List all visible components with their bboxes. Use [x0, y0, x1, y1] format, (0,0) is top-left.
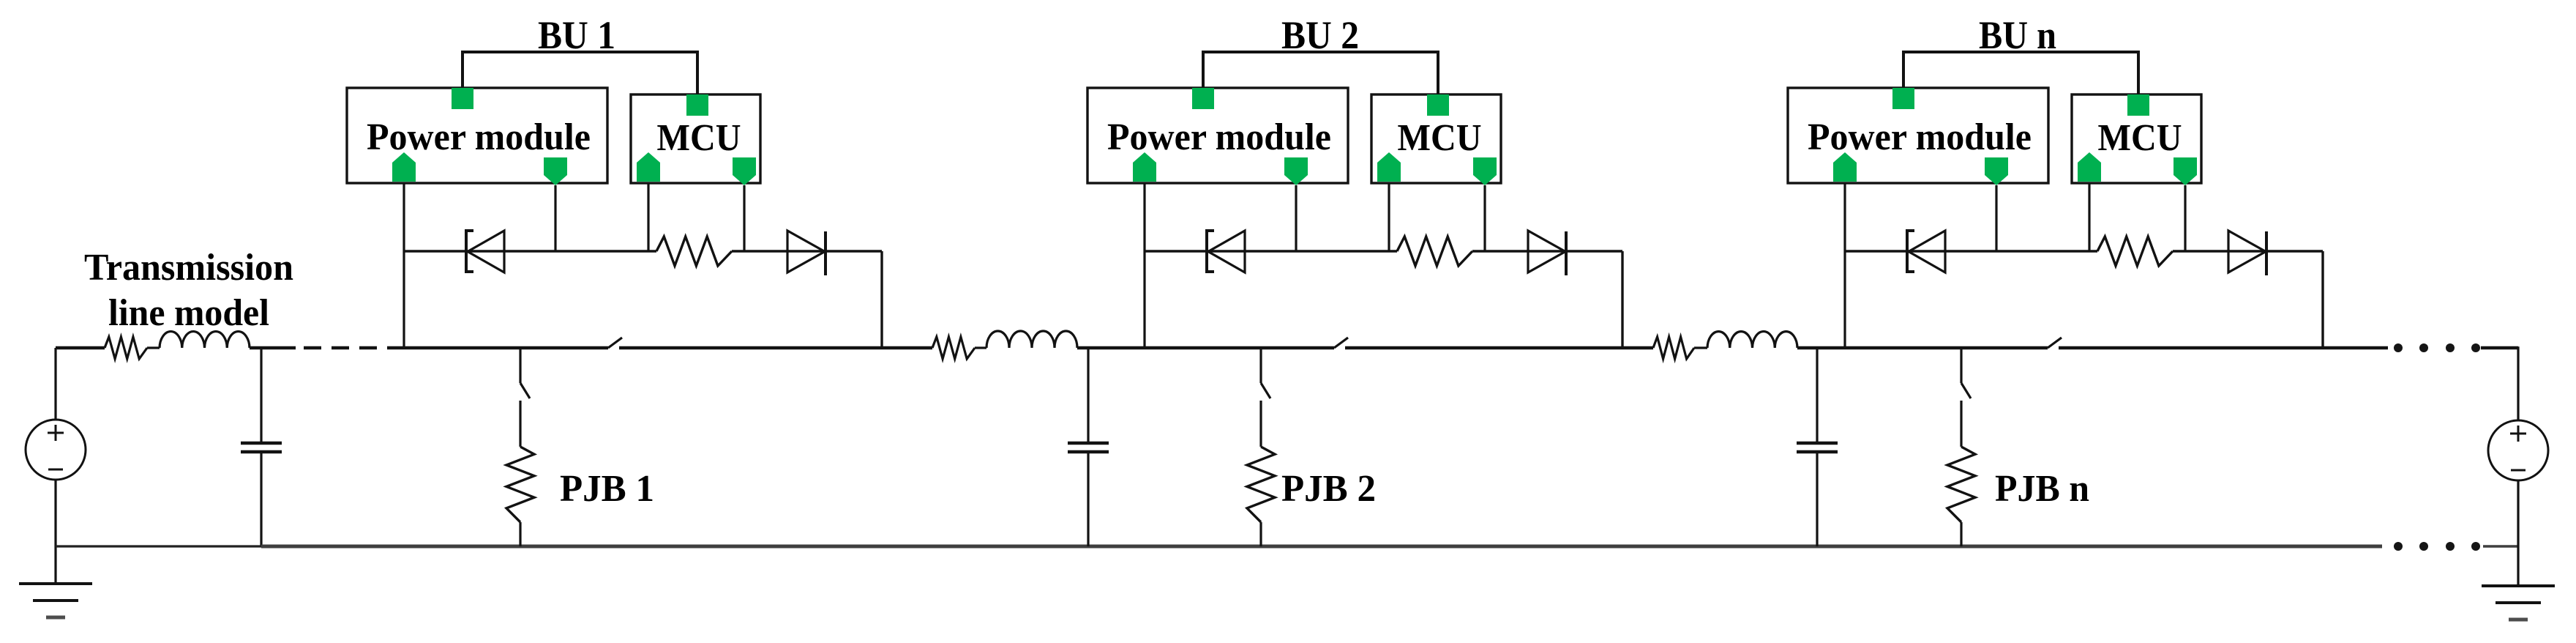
wire Power module left pin down to bus (unit 3)	[1843, 183, 1846, 348]
box MCU (unit 2)	[1371, 94, 1501, 183]
diode D3a cathode bracket	[1907, 231, 1914, 272]
pin green up-arrow bottom-left of MCU (unit 1)	[637, 152, 660, 182]
wire diode row left part (unit 3)	[1845, 250, 2097, 252]
svg-text:BU 1: BU 1	[538, 13, 615, 57]
resistor PJB 3	[1947, 447, 1975, 522]
switch on top bus (unit 3) lever	[2048, 338, 2062, 348]
wire right branch down to bus (unit 2)	[1621, 251, 1623, 348]
diode D3b cathode bar	[2265, 231, 2268, 275]
wire diode row left part (unit 2)	[1145, 250, 1397, 252]
wire diode row right part (unit 2)	[1472, 250, 1622, 252]
wire right branch down to bus (unit 1)	[880, 251, 883, 348]
wire top bus (switch1 to R section2)	[619, 346, 932, 349]
resistor (transmission line R)	[105, 337, 147, 359]
pin green down-arrow bottom-right of Power module (unit 3)	[1985, 157, 2008, 185]
node dots bottom-right ellipsis	[2394, 542, 2403, 551]
pin green square top of Power module (unit 2)	[1192, 88, 1214, 109]
resistor PJB 2	[1247, 447, 1275, 522]
wire MCU left pin down to diode row (unit 1)	[647, 183, 649, 251]
svg-text:Power module: Power module	[1107, 116, 1331, 158]
pin green square top of MCU (unit 2)	[1427, 94, 1449, 116]
wire BU bracket (unit 2)	[1203, 52, 1438, 94]
svg-text:PJB n: PJB n	[1995, 468, 2089, 510]
pin green square top of Power module (unit 3)	[1892, 88, 1914, 109]
wire PJB branch upper (unit 2)	[1259, 348, 1262, 383]
capacitor C3 plates	[1797, 442, 1838, 445]
diode D1b triangle (points right)	[787, 231, 825, 272]
wire top bus (L2 to switch2)	[1077, 346, 1334, 349]
wire PJB branch middle (unit 3)	[1960, 401, 1962, 447]
wire bottom bus (right stub to VS2)	[2483, 545, 2518, 548]
wire top bus segment (source to R)	[56, 346, 105, 349]
wire diode row right part (unit 3)	[2173, 250, 2323, 252]
capacitor C2 vertical wire bottom	[1087, 453, 1089, 546]
resistor R3m (between MCU pins)	[2097, 237, 2173, 266]
wire diode row right part (unit 1)	[732, 250, 882, 252]
svg-text:BU n: BU n	[1979, 13, 2056, 57]
svg-text:Power module: Power module	[1808, 116, 2032, 158]
wire (VS1 - down to bottom bus and ground)	[54, 480, 56, 584]
pin green up-arrow bottom-left of Power module (unit 1)	[392, 152, 416, 182]
ground (right)	[2482, 584, 2555, 587]
box MCU (unit 3)	[2072, 94, 2201, 183]
pin green down-arrow bottom-right of MCU (unit 2)	[1473, 157, 1497, 185]
wire MCU right pin down to diode row (unit 1)	[743, 185, 745, 251]
diode D2b triangle (points right)	[1528, 231, 1565, 272]
diode D1b cathode bar	[824, 231, 827, 275]
wire Power module right pin down to diode row (unit 1)	[554, 185, 556, 251]
pin green square top of Power module (unit 1)	[452, 88, 473, 109]
resistor R line section 2	[932, 337, 975, 359]
pin green down-arrow bottom-right of Power module (unit 2)	[1284, 157, 1308, 185]
wire Power module right pin down to diode row (unit 3)	[1995, 185, 1997, 251]
pin green up-arrow bottom-left of Power module (unit 3)	[1833, 152, 1857, 182]
wire MCU right pin down to diode row (unit 3)	[2184, 185, 2186, 251]
wire (right corner down to VS2)	[2517, 346, 2519, 420]
resistor R line section 3	[1653, 337, 1694, 359]
svg-text:MCU: MCU	[1398, 117, 1482, 159]
svg-text:MCU: MCU	[2098, 117, 2182, 159]
inductor (transmission line L)	[160, 332, 250, 348]
wire (R to L section 2)	[975, 346, 986, 349]
capacitor C1 vertical wire (bottom)	[260, 453, 262, 546]
box MCU (unit 1)	[631, 94, 760, 183]
wire bottom bus (main)	[261, 545, 2382, 549]
wire (R to L)	[147, 346, 160, 349]
pin green square top of MCU (unit 1)	[686, 94, 708, 116]
wire top bus (ellipsis to right corner)	[2481, 346, 2518, 349]
pin green down-arrow bottom-right of MCU (unit 1)	[733, 157, 756, 185]
wire Power module left pin down to bus (unit 2)	[1143, 183, 1145, 348]
wire PJB branch upper (unit 3)	[1960, 348, 1962, 383]
pin green up-arrow bottom-left of MCU (unit 2)	[1377, 152, 1401, 182]
capacitor C1 vertical wire (top)	[260, 348, 262, 442]
wire (VS2 down to ground)	[2517, 480, 2519, 586]
wire top bus segment (L to node C1)	[250, 346, 296, 349]
pin green up-arrow bottom-left of Power module (unit 2)	[1133, 152, 1156, 182]
wire Power module right pin down to diode row (unit 2)	[1295, 185, 1297, 251]
pin green down-arrow bottom-right of MCU (unit 3)	[2173, 157, 2197, 185]
inductor L line section 2	[986, 331, 1077, 348]
ground (left)	[19, 582, 92, 585]
diode D2b cathode bar	[1565, 231, 1568, 275]
resistor R1m (between MCU pins)	[656, 237, 732, 266]
diode D3b triangle (points right)	[2228, 231, 2266, 272]
wire PJB branch lower (unit 1)	[519, 522, 521, 546]
switch on top bus (unit 1) lever	[608, 338, 622, 348]
switch on top bus (unit 2) lever	[1334, 338, 1348, 348]
capacitor C3 vertical wire top	[1816, 348, 1818, 442]
box Power module (unit 1)	[347, 88, 607, 183]
wire top bus segment (BUn to ellipsis)	[2059, 346, 2388, 349]
wire PJB branch middle (unit 2)	[1259, 401, 1262, 447]
voltage source VS2 (right)	[2488, 420, 2548, 480]
capacitor C1 plates	[241, 442, 282, 445]
svg-text:Power module: Power module	[367, 116, 591, 158]
switch in PJB branch (unit 2) lever	[1261, 383, 1270, 398]
voltage source VS1 (left)	[26, 420, 86, 480]
pin green up-arrow bottom-left of MCU (unit 3)	[2078, 152, 2101, 182]
node dots top-right ellipsis	[2394, 343, 2403, 352]
svg-text:PJB 2: PJB 2	[1281, 468, 1376, 510]
box Power module (unit 3)	[1788, 88, 2048, 183]
svg-text:Transmission: Transmission	[84, 247, 293, 289]
wire diode row left part (unit 1)	[404, 250, 656, 252]
pin green down-arrow bottom-right of Power module (unit 1)	[544, 157, 567, 185]
capacitor C2 vertical wire top	[1087, 348, 1089, 442]
box Power module (unit 2)	[1087, 88, 1348, 183]
capacitor C3 vertical wire bottom	[1816, 453, 1818, 546]
wire right branch down to bus (unit 3)	[2321, 251, 2324, 348]
svg-text:line model: line model	[108, 292, 269, 334]
wire top bus segment (dash end to BU1 node)	[387, 346, 608, 349]
resistor PJB 1	[506, 447, 534, 522]
diode D1a cathode bracket	[466, 231, 473, 272]
wire BU bracket (unit 1)	[463, 52, 697, 94]
inductor L line section 3	[1707, 332, 1797, 348]
wire top bus (switch2 to R section3)	[1345, 346, 1653, 349]
wire (bus down to VS1 +)	[54, 348, 56, 420]
svg-text:PJB 1: PJB 1	[560, 468, 654, 510]
wire PJB branch lower (unit 2)	[1259, 522, 1262, 546]
diode D2a triangle (points left)	[1208, 231, 1245, 272]
wire MCU left pin down to diode row (unit 2)	[1388, 183, 1390, 251]
pin green square top of MCU (unit 3)	[2127, 94, 2149, 116]
wire top bus (L3 to switch3)	[1797, 346, 2048, 349]
wire (R to L section 3)	[1694, 346, 1707, 349]
switch in PJB branch (unit 1) lever	[520, 383, 530, 398]
wire top bus dashed segment	[304, 346, 321, 349]
switch in PJB branch (unit 3) lever	[1961, 383, 1971, 398]
wire BU bracket (unit 3)	[1903, 52, 2138, 94]
wire Power module left pin down to bus (unit 1)	[402, 183, 405, 348]
capacitor C2 plates	[1068, 442, 1109, 445]
svg-text:MCU: MCU	[657, 117, 741, 159]
diode D2a cathode bracket	[1207, 231, 1214, 272]
wire PJB branch middle (unit 1)	[519, 401, 521, 447]
resistor R2m (between MCU pins)	[1397, 237, 1472, 266]
diode D3a triangle (points left)	[1909, 231, 1945, 272]
wire MCU left pin down to diode row (unit 3)	[2088, 183, 2090, 251]
svg-text:BU 2: BU 2	[1281, 13, 1359, 57]
wire bottom bus (left thin segment)	[56, 545, 261, 547]
wire PJB branch lower (unit 3)	[1960, 522, 1962, 546]
diode D1a triangle (points left)	[468, 231, 504, 272]
wire MCU right pin down to diode row (unit 2)	[1483, 185, 1486, 251]
wire PJB branch upper (unit 1)	[519, 348, 521, 383]
